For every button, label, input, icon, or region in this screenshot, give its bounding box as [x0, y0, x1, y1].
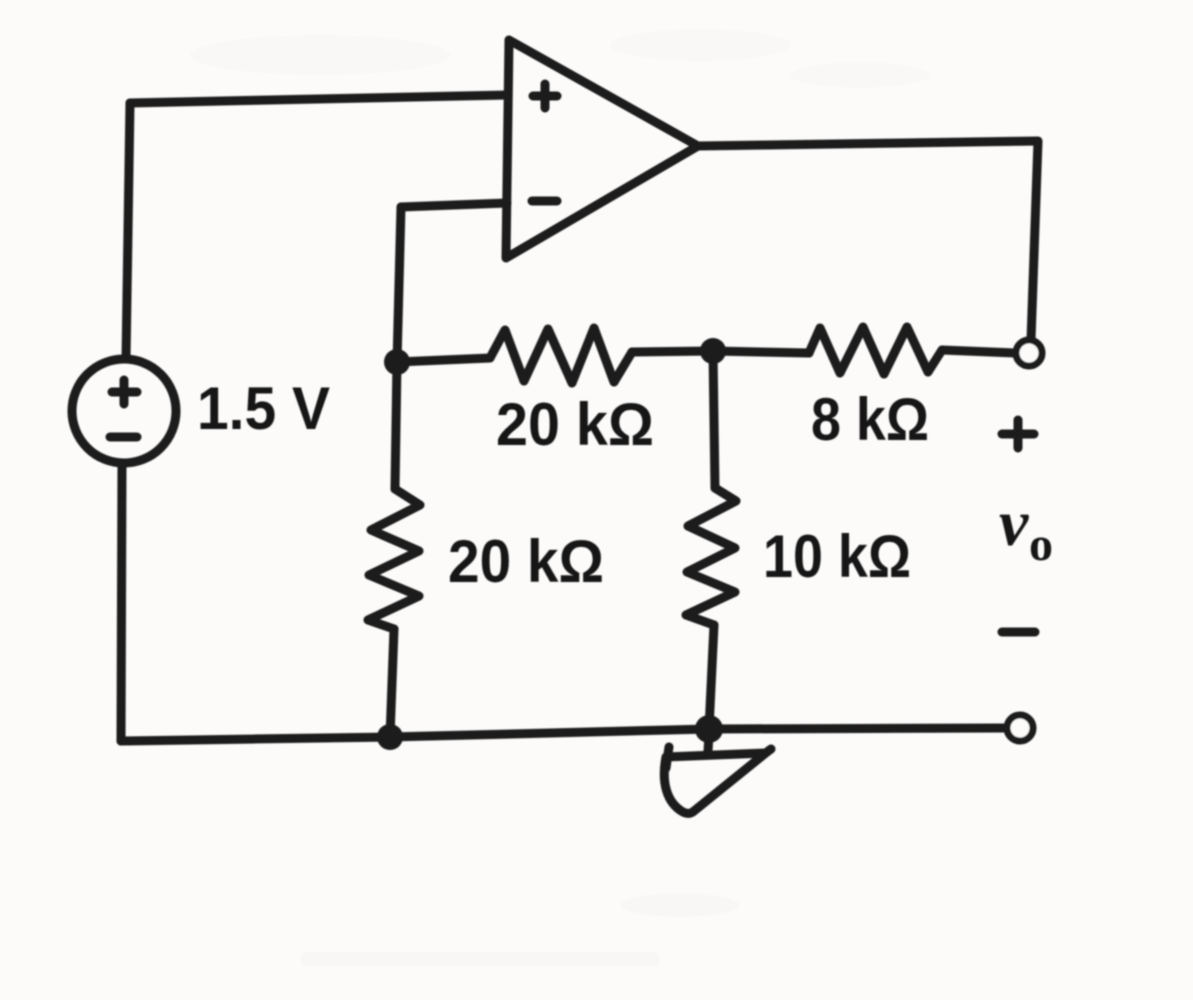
wire bottom rail [121, 728, 1006, 741]
ground symbol stub [708, 735, 709, 751]
resistor R3 8k zigzag [809, 327, 942, 374]
node B junction dot [700, 338, 726, 364]
label plus output [1002, 420, 1034, 448]
op-amp minus input sign [532, 197, 557, 206]
svg-text:o: o [1029, 518, 1053, 571]
resistor R2 20k vertical zigzag [368, 489, 420, 629]
resistor R1 20k horizontal zigzag [490, 328, 632, 383]
wire node A down to R2 [395, 362, 397, 489]
svg-text:v: v [999, 487, 1029, 560]
node A junction dot [384, 349, 410, 375]
wire op-amp output to right and down [698, 141, 1038, 340]
ground symbol scribble triangle [664, 749, 771, 813]
label minus output [1002, 628, 1035, 637]
voltage source V1 1.5V circle [72, 359, 176, 463]
wire R2 to bottom rail [390, 629, 394, 737]
wire inverting input horizontal [401, 203, 507, 207]
wire left vertical from top corner to source [126, 103, 130, 359]
wire R4 to bottom rail [709, 625, 714, 729]
svg-text:20 kΩ: 20 kΩ [496, 391, 654, 458]
resistor R4 10k vertical zigzag [686, 488, 736, 625]
op-amp plus input sign [533, 84, 557, 108]
faint scan smudges (decorative) [190, 29, 930, 966]
wire inverting input vertical down to node A [397, 207, 401, 362]
V1 plus sign [112, 380, 137, 404]
wire node A to R1 [397, 358, 490, 362]
wire R3 to output terminal [942, 350, 1015, 353]
terminal output bottom open circle [1007, 715, 1033, 741]
svg-text:1.5 V: 1.5 V [197, 375, 330, 442]
wire below source to bottom rail [121, 463, 122, 741]
junction dot bottom left [377, 724, 403, 750]
V1 minus sign [110, 433, 137, 442]
svg-text:8 kΩ: 8 kΩ [811, 386, 929, 453]
terminal output top open circle [1016, 340, 1042, 366]
wire node B to R3 [713, 351, 809, 353]
svg-text:20 kΩ: 20 kΩ [448, 528, 604, 595]
ground symbol tick [666, 747, 669, 768]
wire noninverting input top [130, 95, 508, 103]
svg-text:10 kΩ: 10 kΩ [763, 523, 911, 590]
op-amp U1 triangle [506, 40, 698, 258]
junction dot bottom middle [695, 715, 723, 743]
wire node B down to R4 [713, 351, 715, 488]
wire R1 to node B [632, 351, 713, 352]
